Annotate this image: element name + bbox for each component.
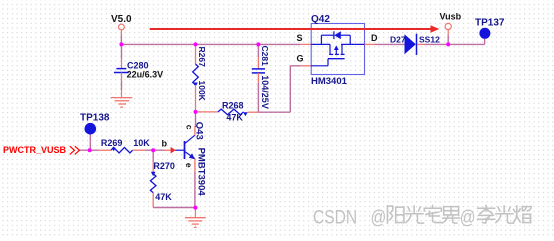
watermark glyph guang xyxy=(406,206,424,223)
ground under Q43 xyxy=(185,208,206,228)
svg-text:V5.0: V5.0 xyxy=(111,14,132,25)
pin Q42 D xyxy=(365,43,375,45)
annotation red arrow base xyxy=(171,147,176,154)
transistor Q42 HM3401 P-MOSFET xyxy=(311,14,365,87)
svg-text:e: e xyxy=(184,163,194,168)
svg-text:c: c xyxy=(184,125,194,130)
resistor R267 xyxy=(193,44,207,112)
junction node (89.7,150.2) xyxy=(88,148,92,152)
Q42 body diode xyxy=(334,31,341,39)
transistor Q43 PMBT3904 xyxy=(175,122,206,197)
wire D27 to Vusb xyxy=(425,43,485,45)
svg-text:Q42: Q42 xyxy=(311,14,330,25)
capacitor C281 xyxy=(252,46,270,109)
svg-text:R270: R270 xyxy=(153,161,175,171)
wire top rail xyxy=(121,43,300,45)
annotation red arrow top xyxy=(150,25,440,33)
svg-text:G: G xyxy=(297,54,304,64)
svg-text:22u/6.3V: 22u/6.3V xyxy=(127,69,164,79)
wire emitter xyxy=(194,159,196,172)
junction node (195.4,207.6) xyxy=(193,206,197,210)
wire collector xyxy=(195,112,197,126)
resistor R270 xyxy=(150,150,175,207)
svg-text:R268: R268 xyxy=(222,100,244,110)
svg-text:SS12: SS12 xyxy=(419,34,440,44)
svg-text:TP137: TP137 xyxy=(475,18,505,29)
diode D27 SS12 xyxy=(390,34,440,55)
wire V5.0 stem xyxy=(120,35,122,45)
pin Q42 G xyxy=(301,65,312,67)
junction node (448.2,44.4) xyxy=(446,42,450,46)
power port Vusb xyxy=(440,11,462,35)
watermark glyph zhai xyxy=(424,206,441,223)
watermark glyph li xyxy=(478,206,495,224)
junction node (121.4,44.4) xyxy=(119,42,123,46)
test point TP137 xyxy=(475,18,505,45)
capacitor C280 xyxy=(114,59,163,81)
svg-text:10K: 10K xyxy=(133,138,150,148)
junction node (258.4,44.4) xyxy=(256,42,260,46)
wire C280 top xyxy=(121,44,123,59)
svg-text:CSDN: CSDN xyxy=(313,206,357,228)
junction node (195.5,111.9) xyxy=(194,110,198,114)
svg-text:PMBT3904: PMBT3904 xyxy=(195,148,206,197)
wire R269 to junction xyxy=(145,149,164,151)
svg-text:b: b xyxy=(162,139,168,149)
Q42 channel and gate xyxy=(329,44,331,54)
svg-text:Vusb: Vusb xyxy=(440,11,462,21)
watermark glyph yang xyxy=(387,206,404,223)
svg-text:TP138: TP138 xyxy=(80,112,110,123)
junction node (195.5,44.4) xyxy=(194,42,198,46)
pin segment to Q43 base xyxy=(164,149,171,151)
svg-text:S: S xyxy=(297,33,303,43)
wire gate net xyxy=(258,66,300,112)
junction node (153.2,150.2) xyxy=(151,148,155,152)
svg-text:47K: 47K xyxy=(226,112,243,122)
wire R270 bottom xyxy=(153,207,195,209)
svg-text:D27: D27 xyxy=(390,34,406,44)
svg-text:D: D xyxy=(371,33,378,43)
wire Vusb stem xyxy=(447,35,449,44)
watermark glyph nan xyxy=(443,207,460,224)
svg-text:@: @ xyxy=(371,206,387,228)
wire port to junction xyxy=(80,149,99,151)
wire to D27 xyxy=(375,43,405,45)
port PWCTR_VUSB xyxy=(3,145,80,155)
watermark glyph guang2 xyxy=(496,206,514,223)
ground under C280 xyxy=(111,90,133,107)
wire C280 to ground xyxy=(121,81,123,90)
resistor R269 xyxy=(99,138,151,153)
test point TP138 xyxy=(80,112,110,150)
svg-text:100K: 100K xyxy=(197,81,207,102)
resistor R268 xyxy=(196,100,259,122)
svg-text:R269: R269 xyxy=(101,138,123,148)
pin Q42 S xyxy=(301,43,311,45)
watermark CSDN xyxy=(313,206,476,228)
power port V5.0 xyxy=(111,14,132,35)
wire C281 top xyxy=(257,44,259,57)
svg-text:HM3401: HM3401 xyxy=(311,76,348,87)
svg-text:47K: 47K xyxy=(155,192,172,202)
watermark glyph yi xyxy=(514,206,532,223)
wire C281 bottom xyxy=(257,83,259,112)
svg-text:104/25V: 104/25V xyxy=(260,75,270,109)
svg-text:C281: C281 xyxy=(260,46,270,67)
svg-text:R267: R267 xyxy=(197,47,207,68)
svg-text:PWCTR_VUSB: PWCTR_VUSB xyxy=(3,145,67,155)
svg-text:@: @ xyxy=(460,206,476,228)
